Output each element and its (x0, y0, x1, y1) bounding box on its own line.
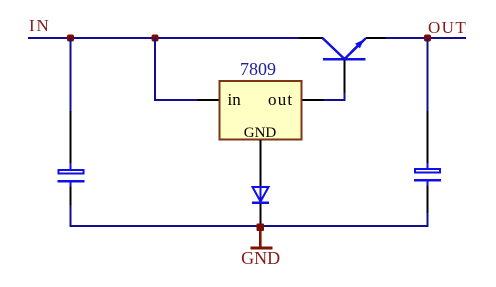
regulator U1 pin label out (268, 90, 293, 109)
wire vertical from IN junction down to C1 (70, 38, 72, 111)
junction dot at IN/C1 (67, 35, 74, 42)
svg-text:IN: IN (29, 16, 51, 35)
capacitor C1 top pin (black) (70, 111, 72, 164)
regulator U1 pin label in (228, 90, 242, 109)
svg-text:in: in (228, 90, 242, 109)
svg-text:GND: GND (244, 125, 277, 141)
capacitor C2 top pin (black) (427, 111, 429, 163)
capacitor C2 body (414, 163, 441, 186)
regulator U1 in pin (black) (198, 99, 219, 101)
junction dot at OUT/C2 (424, 35, 431, 42)
transistor Q1 base pin (black, down to out wire) (344, 60, 346, 93)
capacitor C1 body (58, 163, 85, 187)
regulator U1 designator 7809 (240, 59, 276, 79)
regulator U1 body box (220, 81, 302, 140)
wire vertical from OUT junction down to C2 (427, 38, 429, 111)
capacitor C2 bottom pin (black) (427, 186, 429, 214)
svg-text:7809: 7809 (240, 59, 276, 79)
transistor Q1 body (slants, base bar, emitter arrow) (323, 38, 366, 61)
svg-text:GND: GND (241, 248, 280, 268)
regulator U1 pin label GND (244, 125, 277, 141)
wire from regulator out up to transistor base (324, 93, 346, 101)
wire from C1 to bottom rail (70, 206, 72, 228)
node OUT label (428, 18, 467, 37)
wire top rail right (transistor to OUT) (385, 37, 466, 39)
ground GND label (241, 248, 280, 268)
regulator U1 out pin (black) (303, 99, 324, 101)
transistor Q1 emitter pin (black) (366, 37, 386, 39)
wire vertical branch down to regulator in (154, 38, 198, 101)
wire bottom rail (70, 225, 429, 227)
node IN label (29, 16, 51, 35)
junction dot at ground tap (257, 224, 265, 232)
diode D1 cathode pin (black, to bottom rail) (260, 204, 262, 224)
ground symbol GND port (251, 231, 273, 250)
junction dot at regulator input branch (152, 35, 159, 42)
diode D1 body (252, 187, 269, 204)
wire top rail left (IN to transistor) (28, 37, 299, 39)
capacitor C1 bottom pin (black) (70, 187, 72, 206)
regulator U1 GND pin (black, down to diode) (260, 140, 262, 187)
wire from C2 to bottom rail (427, 213, 429, 227)
transistor Q1 collector pin (black) (299, 37, 323, 39)
svg-text:OUT: OUT (428, 18, 467, 37)
svg-text:out: out (268, 90, 293, 109)
